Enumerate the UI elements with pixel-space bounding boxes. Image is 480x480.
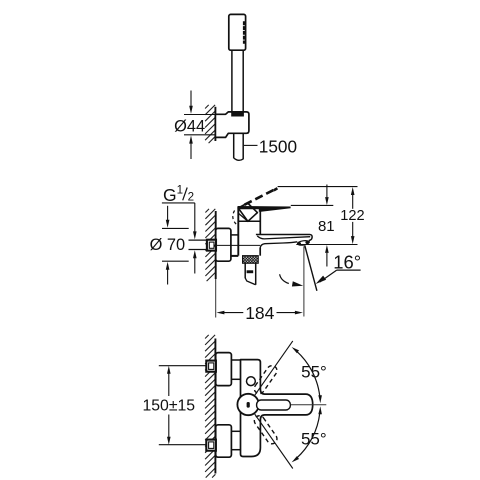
extent line raised-lever top (122) <box>278 186 358 188</box>
dimension 150±15 <box>142 366 195 445</box>
dimension Ø44 <box>174 91 215 160</box>
water stream line 16deg <box>305 246 317 291</box>
svg-text:Ø 70: Ø 70 <box>150 236 186 254</box>
svg-text:2: 2 <box>188 190 194 203</box>
rotation arc lower 55deg <box>292 406 322 462</box>
radial line 55 down <box>255 414 293 468</box>
svg-text:16°: 16° <box>333 251 361 272</box>
mixer body column (side view) <box>238 206 260 255</box>
S-union square <box>207 240 216 251</box>
svg-text:55°: 55° <box>301 363 327 382</box>
S-union square (top) <box>206 361 216 372</box>
extent line spout tip level <box>296 244 357 246</box>
diverter knob circle <box>247 377 256 386</box>
svg-text:1: 1 <box>177 184 183 197</box>
wall hatch (middle section) <box>205 209 215 281</box>
dimension 122 <box>340 187 364 244</box>
lever centerline <box>291 404 327 406</box>
supply extension lines <box>159 366 207 445</box>
extent line lever top (81) <box>291 204 334 206</box>
shower head <box>229 14 246 50</box>
svg-text:1500: 1500 <box>259 137 297 157</box>
union neck between flange and body <box>231 235 238 256</box>
pipe centerline <box>216 244 260 246</box>
rotation arc upper 55deg <box>292 347 322 403</box>
plumb line from spout tip <box>303 246 305 316</box>
aerator at spout tip <box>297 240 310 246</box>
svg-text:122: 122 <box>340 208 364 224</box>
knurled nut band <box>243 256 259 264</box>
svg-text:184: 184 <box>245 303 274 323</box>
dashed lever rotated -55 (down) <box>252 414 279 446</box>
radial line 55 up <box>255 341 293 395</box>
dashed rotation arc at cap <box>233 209 236 224</box>
escutcheon flange (side view) <box>216 228 231 261</box>
wall holder bracket <box>215 112 249 137</box>
dashed lever rotated +55 (up) <box>252 364 279 396</box>
dashed raised lever position <box>244 188 277 205</box>
svg-text:Ø44: Ø44 <box>174 117 205 135</box>
lever slot <box>257 400 291 410</box>
label 1500 hose length <box>244 137 297 157</box>
svg-text:55°: 55° <box>301 429 327 448</box>
cartridge dome circle <box>237 394 258 415</box>
svg-text:G: G <box>163 185 177 205</box>
dimension Ø70 <box>150 206 189 285</box>
shower handle tube <box>232 50 243 113</box>
lever cap (tilted) <box>238 203 258 221</box>
grip end black band <box>231 112 244 116</box>
supply pipe lines G1/2 <box>189 240 207 249</box>
spout <box>256 235 312 248</box>
svg-text:150±15: 150±15 <box>142 397 195 414</box>
cartridge center tick <box>247 402 250 408</box>
dimension 81 <box>318 185 335 267</box>
mixer body with lever (top view) <box>238 360 312 457</box>
S-union square (bottom) <box>206 440 216 451</box>
wall extension line down to 184 dimension <box>215 279 217 318</box>
label G 1/2 <box>162 184 197 274</box>
wall hatch (bottom section) <box>205 335 215 478</box>
dimension 16deg leaders <box>280 251 362 286</box>
escutcheon (top connection) <box>216 353 232 386</box>
escutcheon (bottom connection) <box>216 425 232 457</box>
solid lever blade <box>238 206 291 212</box>
wall hatch (top section) <box>205 105 215 143</box>
shower hose <box>234 133 244 160</box>
dimension 184 <box>216 303 303 323</box>
svg-text:81: 81 <box>318 218 335 235</box>
union necks (top view) <box>231 360 240 450</box>
diverter pull rod <box>245 263 256 285</box>
